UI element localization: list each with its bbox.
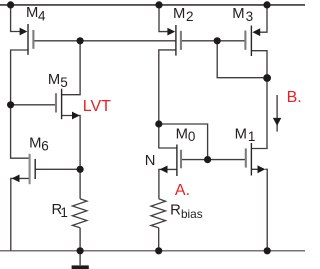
svg-text:M: M xyxy=(48,72,60,88)
svg-text:1: 1 xyxy=(248,129,256,144)
svg-text:B.: B. xyxy=(287,89,302,106)
svg-text:4: 4 xyxy=(38,9,46,24)
svg-text:M: M xyxy=(29,136,41,152)
svg-text:A.: A. xyxy=(175,182,190,199)
svg-text:1: 1 xyxy=(60,205,68,220)
svg-text:M: M xyxy=(26,5,38,21)
svg-text:M: M xyxy=(176,126,188,142)
svg-text:6: 6 xyxy=(41,139,49,154)
svg-text:N: N xyxy=(145,153,156,169)
svg-text:M: M xyxy=(173,6,185,22)
svg-text:3: 3 xyxy=(246,9,254,24)
svg-text:R: R xyxy=(170,202,181,218)
svg-text:5: 5 xyxy=(60,75,68,90)
svg-text:0: 0 xyxy=(188,129,196,144)
svg-text:bias: bias xyxy=(181,207,203,221)
svg-text:2: 2 xyxy=(186,9,194,24)
svg-text:M: M xyxy=(232,6,244,22)
svg-text:LVT: LVT xyxy=(83,98,111,115)
svg-text:M: M xyxy=(235,126,247,142)
